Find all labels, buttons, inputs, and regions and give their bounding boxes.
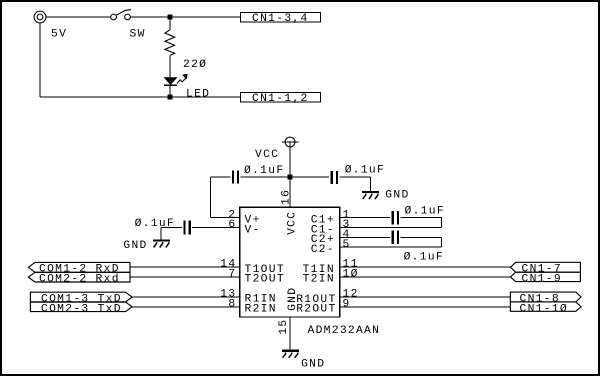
svg-text:COM2-2 Rxd: COM2-2 Rxd <box>39 273 120 285</box>
svg-text:1Ø: 1Ø <box>343 268 359 280</box>
svg-text:8: 8 <box>228 298 236 310</box>
svg-text:LED: LED <box>186 89 210 101</box>
svg-text:CN1-3,4: CN1-3,4 <box>252 13 309 25</box>
svg-text:9: 9 <box>343 298 351 310</box>
svg-text:R2IN: R2IN <box>245 303 277 315</box>
svg-text:5V: 5V <box>51 28 67 40</box>
svg-text:VCC: VCC <box>287 211 299 235</box>
svg-text:SW: SW <box>130 28 146 40</box>
svg-text:6: 6 <box>228 219 236 231</box>
svg-text:Ø.1uF: Ø.1uF <box>244 165 284 177</box>
svg-text:CN1-1Ø: CN1-1Ø <box>520 303 568 315</box>
svg-text:GND: GND <box>385 190 409 202</box>
svg-text:7: 7 <box>228 268 236 280</box>
svg-text:16: 16 <box>280 189 292 205</box>
svg-text:22Ø: 22Ø <box>183 59 207 71</box>
svg-text:GND: GND <box>123 240 147 252</box>
svg-text:CN1-1,2: CN1-1,2 <box>252 93 309 105</box>
svg-text:5: 5 <box>343 239 351 251</box>
svg-text:T2IN: T2IN <box>303 274 335 286</box>
svg-text:Ø.1uF: Ø.1uF <box>405 205 445 217</box>
svg-text:Ø.1uF: Ø.1uF <box>404 252 444 264</box>
svg-text:T2OUT: T2OUT <box>245 274 285 286</box>
svg-text:V-: V- <box>245 224 261 236</box>
svg-text:GND: GND <box>301 359 325 371</box>
svg-text:C2-: C2- <box>311 244 335 256</box>
svg-text:ADM232AAN: ADM232AAN <box>308 325 381 337</box>
svg-text:VCC: VCC <box>255 149 279 161</box>
svg-text:Ø.1uF: Ø.1uF <box>135 218 175 230</box>
svg-text:R2OUT: R2OUT <box>296 304 336 316</box>
svg-text:15: 15 <box>278 318 290 334</box>
svg-text:CN1-9: CN1-9 <box>522 273 562 285</box>
svg-text:COM2-3 TxD: COM2-3 TxD <box>41 303 122 315</box>
svg-text:Ø.1uF: Ø.1uF <box>345 165 385 177</box>
